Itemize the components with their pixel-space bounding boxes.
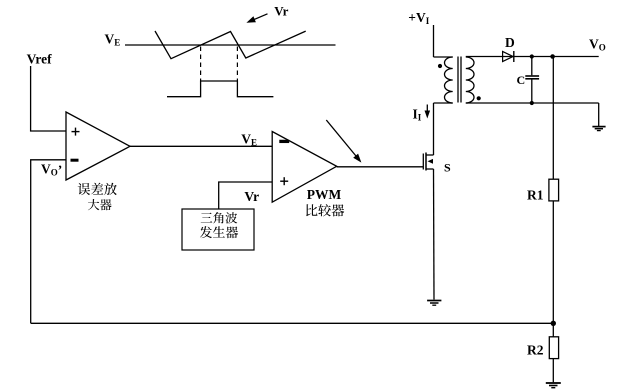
svg-text:S: S [444,160,451,174]
svg-text:C: C [517,73,526,87]
svg-text:Vref: Vref [27,52,52,67]
svg-text:Vr: Vr [274,4,288,19]
svg-text:D: D [505,35,515,50]
svg-text:R1: R1 [527,188,544,203]
svg-text:R2: R2 [527,343,544,358]
svg-text:PWM: PWM [307,187,342,202]
svg-text:Vr: Vr [244,189,259,204]
